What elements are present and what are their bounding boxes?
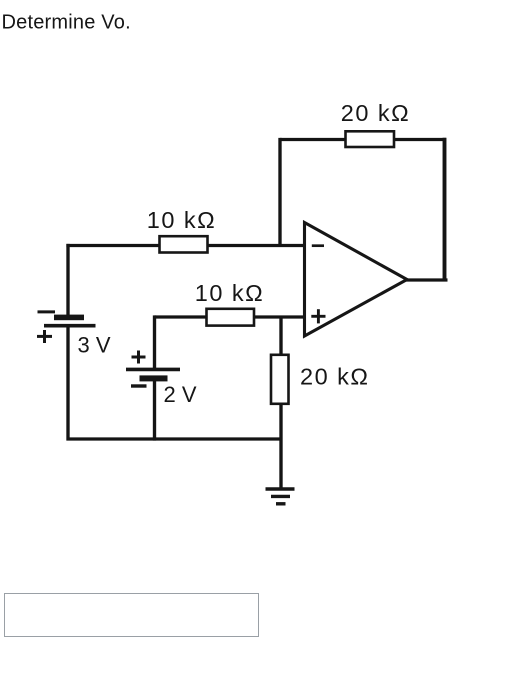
battery V1 3V positive plate (long) bbox=[44, 324, 96, 328]
battery V2 2V positive plate (long) bbox=[126, 368, 180, 372]
svg-text:2 V: 2 V bbox=[164, 382, 197, 407]
wire: feedback left vertical bbox=[278, 138, 281, 246]
battery V2 2V negative plate (short thick) bbox=[140, 375, 168, 381]
wire: non-inverting input left segment (2V node to R2) bbox=[155, 315, 208, 318]
wire: left branch vertical top (node A to 3V battery) bbox=[66, 244, 69, 315]
resistor R2 10kOhm body bbox=[207, 309, 255, 326]
wire: R1 to op-amp inverting input bbox=[207, 244, 305, 247]
wire: feedback right vertical bbox=[443, 138, 447, 280]
svg-text:3 V: 3 V bbox=[78, 333, 111, 358]
op-amp U1 bbox=[305, 223, 408, 337]
wire: left branch vertical bottom + bottom rail bbox=[68, 327, 281, 440]
ground symbol bbox=[266, 489, 295, 504]
resistor R3 20kOhm body (vertical) bbox=[271, 355, 289, 404]
wire: inverting input left segment (node A to R1) bbox=[66, 244, 160, 247]
op-amp non-inverting input sign + bbox=[311, 309, 325, 323]
svg-text:10 kΩ: 10 kΩ bbox=[195, 280, 265, 306]
answer input box bbox=[4, 593, 259, 637]
resistor R1 10kOhm body bbox=[160, 236, 208, 252]
wire: feedback top right segment bbox=[394, 138, 447, 141]
wire: middle branch vertical bottom bbox=[153, 381, 156, 441]
svg-text:Determine Vo.: Determine Vo. bbox=[2, 12, 131, 34]
op-amp inverting input sign - bbox=[312, 244, 324, 247]
resistor Rf 20kOhm feedback body bbox=[346, 131, 395, 147]
battery V1 polarity sign - bbox=[38, 310, 56, 313]
wire: node B down to R3 bbox=[279, 317, 282, 356]
wire: middle branch vertical top (node B to 2V battery) bbox=[153, 315, 156, 369]
wire: R2 to op-amp non-inverting input bbox=[254, 315, 306, 318]
battery V1 polarity sign + bbox=[37, 330, 52, 343]
battery V2 polarity sign + bbox=[132, 351, 146, 364]
wire: R3 to ground bbox=[279, 404, 282, 490]
svg-text:20 kΩ: 20 kΩ bbox=[341, 100, 411, 126]
svg-text:10 kΩ: 10 kΩ bbox=[147, 207, 217, 233]
battery V1 3V negative plate (short thick) bbox=[54, 315, 84, 321]
battery V2 polarity sign - bbox=[131, 384, 147, 387]
svg-text:20 kΩ: 20 kΩ bbox=[300, 364, 370, 390]
wire: op-amp output bbox=[405, 278, 448, 281]
wire: feedback top left segment bbox=[280, 138, 346, 141]
